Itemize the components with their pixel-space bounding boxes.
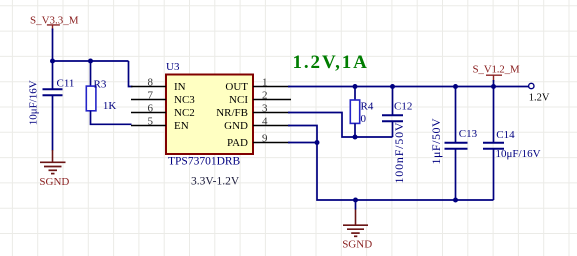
junction C12 top (390, 84, 395, 89)
junction ground rail / SGND (353, 198, 358, 203)
capacitor C14 (483, 87, 541, 201)
pin 8 IN (131, 76, 186, 93)
net label S_V1.2_M (473, 63, 520, 81)
svg-text:5: 5 (148, 115, 154, 127)
net label S_V3.3_M (30, 14, 79, 30)
svg-text:SGND: SGND (342, 239, 372, 251)
svg-text:1.2V,1A: 1.2V,1A (293, 52, 369, 73)
svg-text:S_V1.2_M: S_V1.2_M (473, 63, 520, 75)
junction R4 top (353, 84, 358, 89)
wire from net label to rail (52, 29, 54, 62)
svg-text:C11: C11 (57, 78, 75, 90)
svg-text:1: 1 (262, 76, 268, 88)
pin 4 GND (224, 115, 290, 132)
resistor R3 (86, 61, 131, 124)
wire rail to pin IN (129, 61, 133, 87)
svg-text:PAD: PAD (227, 137, 248, 149)
svg-text:3.3V-1.2V: 3.3V-1.2V (191, 176, 240, 188)
svg-text:NC3: NC3 (174, 94, 195, 106)
svg-text:C14: C14 (496, 129, 515, 141)
wire from label tick to rail (493, 80, 495, 87)
svg-text:10μF/16V: 10μF/16V (28, 80, 40, 125)
pin 9 PAD (227, 132, 290, 149)
junction C13 top (453, 84, 458, 89)
pin 2 NCI (229, 89, 291, 106)
svg-text:1.2V: 1.2V (529, 92, 550, 103)
junction C14 top / net label tap (491, 84, 496, 89)
svg-text:U3: U3 (166, 61, 180, 73)
svg-text:EN: EN (174, 120, 189, 132)
svg-text:9: 9 (262, 132, 268, 144)
svg-text:R4: R4 (361, 100, 374, 112)
ground SGND left (39, 150, 69, 188)
svg-text:7: 7 (148, 89, 154, 101)
svg-text:8: 8 (148, 76, 154, 88)
junction PAD/GND (315, 140, 320, 145)
svg-text:SGND: SGND (39, 176, 69, 188)
wire PAD to GND vertical (288, 142, 317, 144)
pin 1 OUT (225, 76, 290, 93)
junction R4 bottom (353, 135, 358, 140)
svg-text:0: 0 (361, 113, 367, 125)
wire top-left rail (53, 60, 129, 62)
svg-text:GND: GND (224, 120, 248, 132)
junction at R3 top (88, 59, 93, 64)
svg-text:NCI: NCI (229, 94, 248, 106)
svg-text:1K: 1K (103, 100, 117, 112)
junction at C11 top (50, 59, 55, 64)
svg-text:100nF/50V: 100nF/50V (392, 122, 406, 184)
svg-text:3: 3 (262, 102, 268, 114)
wire OUT rail (288, 86, 529, 88)
pin 6 NC2 (131, 102, 195, 119)
pin 7 NC3 (131, 89, 195, 106)
svg-text:10μF/16V: 10μF/16V (496, 148, 541, 160)
svg-text:TPS73701DRB: TPS73701DRB (168, 155, 241, 167)
ground SGND bottom (342, 200, 372, 251)
capacitor C13 (429, 87, 478, 201)
junction C13 bottom (453, 198, 458, 203)
pin 3 NR/FB (216, 102, 290, 119)
svg-text:1μF/50V: 1μF/50V (429, 118, 443, 165)
svg-text:NR/FB: NR/FB (216, 107, 248, 119)
svg-text:4: 4 (262, 115, 268, 127)
svg-text:IN: IN (174, 81, 186, 93)
svg-text:OUT: OUT (225, 81, 248, 93)
wire GND down to ground rail (288, 126, 494, 201)
resistor R4 (350, 87, 374, 138)
capacitor C12 (382, 87, 412, 184)
svg-text:C13: C13 (459, 128, 478, 140)
pin 5 EN (131, 115, 189, 132)
wire NR/FB to R4 bottom and C12 bottom (288, 113, 393, 138)
svg-text:R3: R3 (94, 79, 107, 91)
svg-text:NC2: NC2 (174, 107, 195, 119)
port circle 1.2V (529, 83, 550, 103)
svg-text:C12: C12 (394, 100, 412, 112)
svg-text:2: 2 (262, 89, 268, 101)
op IC U3 TPS73701DRB (166, 61, 253, 188)
capacitor C11 (28, 61, 75, 151)
svg-text:6: 6 (148, 102, 154, 114)
